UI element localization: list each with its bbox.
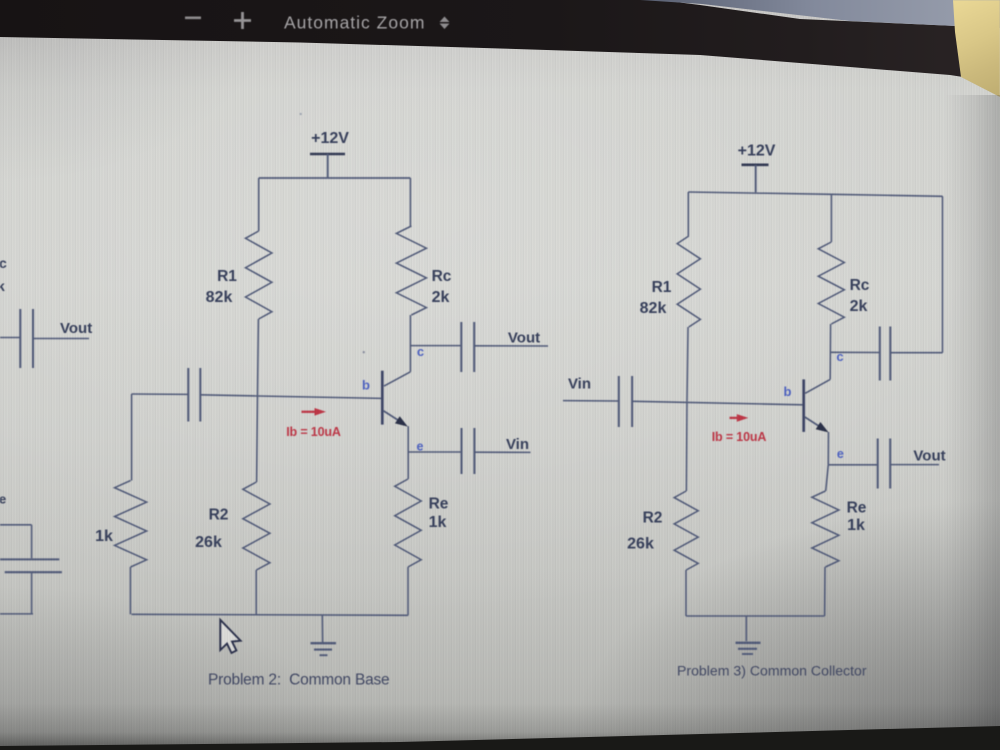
svg-text:Automatic Zoom: Automatic Zoom (284, 13, 425, 33)
